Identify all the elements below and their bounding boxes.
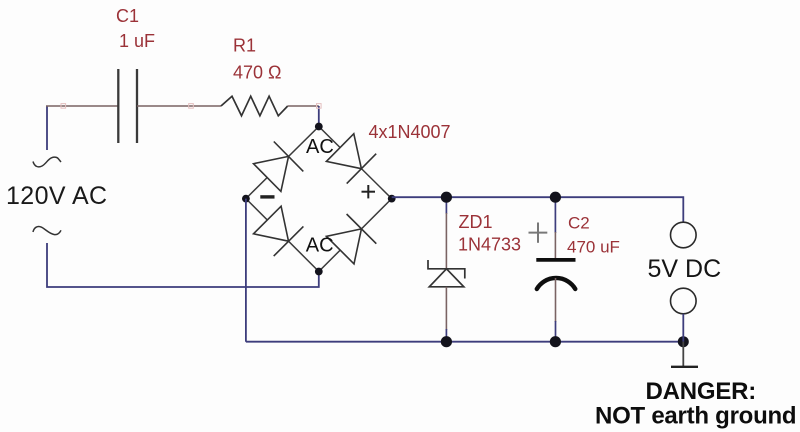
svg-text:DANGER:: DANGER: [646, 378, 757, 405]
AC source V1: upper tilde [33, 157, 61, 167]
svg-text:120V AC: 120V AC [6, 182, 107, 210]
svg-text:4x1N4007: 4x1N4007 [369, 122, 451, 142]
wire: positive top rail to output terminal [392, 197, 684, 222]
svg-text:C2: C2 [568, 214, 590, 233]
node: bridge top [315, 123, 323, 131]
pin connection marker [61, 104, 66, 109]
wire: bridge left node down to negative rail [245, 199, 247, 342]
capacitor C2 [536, 260, 575, 289]
wire: bridge edge top-right [319, 127, 392, 199]
node: top rail at ZD1 [441, 192, 452, 203]
node: top rail at C2 [550, 192, 561, 203]
wire: C2 bottom lead [555, 278, 557, 342]
svg-text:ZD1: ZD1 [459, 212, 493, 232]
svg-text:470 Ω: 470 Ω [233, 63, 282, 83]
wire: lower terminal to bottom rail [682, 314, 684, 342]
wire: R1 to bridge top node [288, 106, 319, 127]
wire: C1 to R1 [137, 105, 221, 107]
wire: output node to floating reference stub [682, 342, 684, 367]
wire: AC source top lead to C1 [46, 106, 118, 150]
wire: ZD1 bottom lead [445, 287, 447, 342]
svg-text:5V DC: 5V DC [648, 255, 722, 283]
pin connection marker [317, 104, 322, 109]
node: bridge left [242, 195, 250, 203]
capacitor C1 [118, 69, 137, 143]
svg-text:AC: AC [306, 234, 334, 256]
wire: bridge edge bottom-right [319, 199, 392, 272]
svg-text:1 uF: 1 uF [119, 31, 155, 51]
diode D2 (bridge top-right) [326, 134, 376, 184]
wire: bridge edge bottom-left [246, 199, 319, 272]
resistor R1 [221, 96, 288, 116]
wire: AC source bottom lead / return to bridge bottom node [47, 243, 319, 287]
label: − (bridge negative) [260, 195, 274, 198]
diode D4 (bridge bottom-right) [326, 214, 376, 264]
node: bottom rail at ZD1 [441, 336, 452, 347]
svg-text:1N4733: 1N4733 [458, 234, 521, 254]
svg-text:470 uF: 470 uF [567, 238, 620, 257]
ground: floating reference bar [671, 366, 698, 368]
diode D3 (bridge bottom-left) [254, 206, 304, 256]
svg-text:NOT earth ground: NOT earth ground [595, 402, 796, 429]
svg-text:C1: C1 [116, 6, 139, 26]
AC source V1: lower tilde [33, 227, 61, 235]
terminal: output return [671, 288, 697, 314]
capacitor C2 polarity + [529, 223, 548, 243]
node: bridge bottom [315, 268, 323, 276]
wire: ZD1 top lead [445, 197, 447, 269]
zener diode ZD1 [428, 260, 465, 287]
terminal: +5V output [671, 222, 697, 248]
node: bridge right [388, 195, 396, 203]
label: + (bridge positive) [362, 185, 376, 198]
wire: negative bottom rail [246, 341, 683, 343]
diode D1 (bridge top-left) [254, 142, 304, 192]
wire: C2 top lead [554, 197, 556, 258]
pin connection marker [189, 104, 194, 109]
wire: bridge edge top-left [246, 127, 319, 199]
node: bottom rail at output [678, 336, 689, 347]
svg-text:AC: AC [306, 136, 334, 158]
svg-text:R1: R1 [233, 36, 256, 56]
node: bottom rail at C2 [550, 336, 561, 347]
